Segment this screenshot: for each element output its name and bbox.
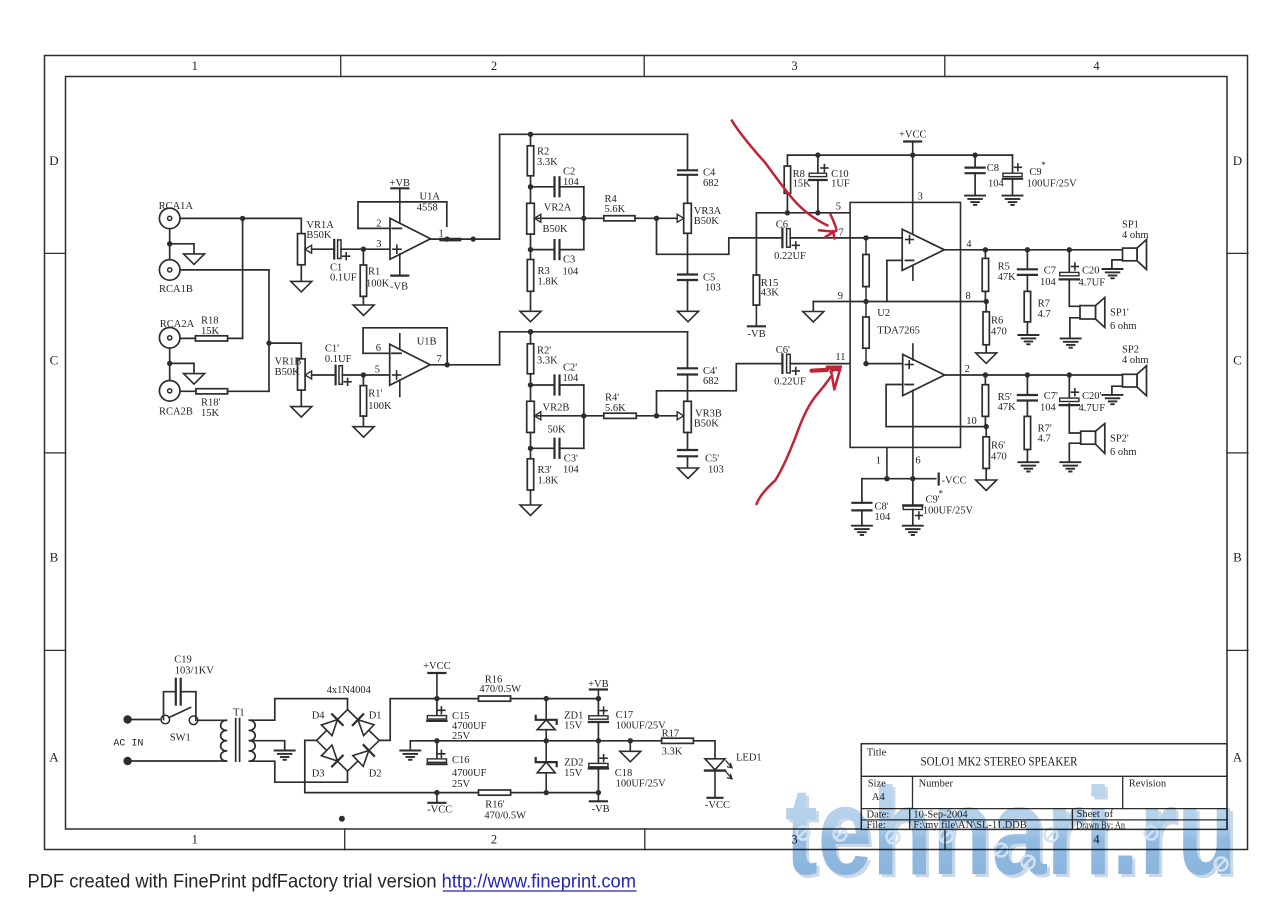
wire U1B out up to rail B bbox=[500, 332, 688, 365]
svg-text:9: 9 bbox=[838, 291, 843, 302]
resistor R18' bbox=[196, 389, 228, 394]
ground C9 bbox=[1003, 195, 1023, 197]
LED LED1 bbox=[705, 759, 725, 770]
svg-text:6 ohm: 6 ohm bbox=[1110, 447, 1137, 458]
node rail C8 bbox=[972, 152, 977, 157]
wire secondary bottom bbox=[249, 761, 347, 782]
ground C5' bbox=[678, 468, 699, 479]
svg-text:*: * bbox=[939, 489, 944, 499]
svg-text:D2: D2 bbox=[369, 768, 382, 779]
wire VR3B to C5' bbox=[687, 433, 689, 451]
power stub U1B bottom bbox=[399, 380, 401, 397]
speaker SP2' bbox=[1096, 424, 1105, 454]
svg-text:100UF/25V: 100UF/25V bbox=[616, 778, 667, 789]
svg-text:3.3K: 3.3K bbox=[662, 747, 683, 758]
node +vcc c15 bbox=[434, 696, 439, 701]
power amp 2 top stub bbox=[912, 344, 914, 360]
svg-text:4: 4 bbox=[966, 239, 972, 250]
resistor R5 bbox=[984, 250, 986, 259]
svg-text:25V: 25V bbox=[452, 779, 471, 790]
svg-text:C: C bbox=[50, 353, 59, 368]
wire R18 to node bbox=[228, 218, 243, 338]
svg-text:T1: T1 bbox=[233, 708, 245, 719]
wire U1A output bbox=[431, 238, 500, 240]
switch SW1 bbox=[161, 715, 170, 724]
svg-text:2: 2 bbox=[491, 59, 497, 73]
wire SW1 to T1 bbox=[198, 719, 227, 721]
svg-text:15K: 15K bbox=[201, 408, 220, 419]
speaker SP1' bbox=[1096, 298, 1105, 328]
ground R3 bbox=[520, 311, 541, 322]
svg-text:-VB: -VB bbox=[390, 282, 408, 293]
svg-text:R6': R6' bbox=[991, 441, 1005, 452]
svg-text:tehnari.ru: tehnari.ru bbox=[785, 763, 1237, 901]
svg-text:C7': C7' bbox=[1044, 391, 1058, 402]
ground R7' bbox=[1018, 461, 1038, 463]
wire bridge diamond bbox=[317, 710, 380, 772]
node pin8 R6 bbox=[984, 299, 989, 304]
svg-text:1UF: 1UF bbox=[831, 179, 850, 190]
svg-text:SP1: SP1 bbox=[1122, 220, 1139, 231]
svg-text:100UF/25V: 100UF/25V bbox=[1027, 178, 1078, 189]
node rail C10 bbox=[815, 152, 820, 157]
svg-text:100K: 100K bbox=[368, 401, 392, 412]
node rail pin3 bbox=[910, 152, 915, 157]
ground mid rail bbox=[409, 741, 411, 751]
svg-text:6: 6 bbox=[376, 343, 381, 354]
svg-text:R18: R18 bbox=[201, 316, 219, 327]
node out2 C7' bbox=[1025, 372, 1030, 377]
wire VR2A wiper bbox=[537, 217, 604, 219]
capacitor C20' bbox=[1068, 375, 1070, 398]
node RCA2 shield bbox=[167, 361, 172, 366]
amp1 feedback to pin8 bbox=[887, 260, 902, 301]
power -VB psu bbox=[597, 793, 599, 802]
wire C5' to ground bbox=[687, 456, 689, 468]
svg-text:C9: C9 bbox=[1029, 167, 1041, 178]
node out2 C20' bbox=[1067, 372, 1072, 377]
svg-text:104: 104 bbox=[563, 266, 580, 277]
wire R3' to ground bbox=[530, 490, 532, 505]
node U1A out a bbox=[444, 236, 449, 241]
svg-text:100K: 100K bbox=[366, 279, 390, 290]
connector RCA1A bbox=[159, 208, 180, 229]
svg-text:0.1UF: 0.1UF bbox=[325, 354, 352, 365]
power -VB R15 bbox=[755, 305, 757, 326]
wire R18' to node bbox=[228, 390, 269, 392]
ground SP1' bbox=[1061, 337, 1081, 339]
wire B signal to C6' bbox=[657, 364, 783, 416]
node R4' out bbox=[654, 413, 659, 418]
svg-text:4.7UF: 4.7UF bbox=[1079, 278, 1106, 289]
wire RCA2A to R18 bbox=[180, 337, 195, 339]
node ZD mid bbox=[544, 738, 549, 743]
svg-text:SW1: SW1 bbox=[170, 732, 191, 743]
power stub U1B top bbox=[399, 334, 401, 350]
wire R15 drop bbox=[755, 213, 757, 275]
resistor R3 bbox=[527, 260, 533, 292]
wire R3 to ground bbox=[530, 291, 532, 311]
node rail A R2 bbox=[528, 132, 533, 137]
wire pin9 line bbox=[813, 301, 960, 303]
svg-text:RCA2A: RCA2A bbox=[160, 319, 195, 330]
ground RCA2 shield bbox=[184, 374, 205, 385]
node out4 C7 bbox=[1025, 247, 1030, 252]
resistor R1 bbox=[360, 265, 366, 296]
wire RCA1 shield to ground bbox=[170, 244, 194, 254]
svg-text:C19: C19 bbox=[174, 654, 192, 665]
capacitor C6' bbox=[781, 354, 783, 373]
wire R16 to +VB bbox=[511, 698, 599, 700]
node +VB bbox=[596, 696, 601, 701]
ground SP2 bbox=[1103, 394, 1123, 396]
svg-text:4: 4 bbox=[1093, 59, 1100, 73]
wire bridge minus out bbox=[305, 740, 437, 792]
svg-text:1: 1 bbox=[192, 833, 198, 847]
ground center tap bbox=[275, 750, 295, 752]
node RCA1 shield bbox=[167, 241, 172, 246]
svg-text:-VCC: -VCC bbox=[942, 476, 967, 487]
svg-text:R3: R3 bbox=[538, 266, 550, 277]
capacitor C19 bbox=[175, 679, 177, 705]
wire U1A out up to rail A bbox=[500, 134, 688, 239]
svg-text:+VCC: +VCC bbox=[899, 130, 927, 141]
svg-text:47K: 47K bbox=[998, 402, 1017, 413]
wire pin5 rail bbox=[756, 212, 850, 214]
wire C6' to pin11 bbox=[790, 363, 866, 365]
potentiometer VR1A bbox=[298, 234, 306, 265]
ground C8 bbox=[965, 195, 985, 197]
svg-text:R5: R5 bbox=[998, 261, 1010, 272]
wire bridge plus out bbox=[379, 699, 437, 741]
node gnd mid bbox=[628, 738, 633, 743]
wire VR1B wiper to C1' bbox=[312, 374, 336, 376]
svg-text:2: 2 bbox=[491, 833, 497, 847]
wire RCA1A to VR1A bbox=[180, 218, 301, 233]
svg-text:-VCC: -VCC bbox=[427, 805, 452, 816]
node U1A out b bbox=[471, 236, 476, 241]
svg-text:104: 104 bbox=[563, 177, 580, 188]
svg-text:B50K: B50K bbox=[275, 367, 301, 378]
svg-text:C6: C6 bbox=[776, 219, 788, 230]
svg-text:TDA7265: TDA7265 bbox=[877, 325, 920, 336]
wire node to VR1B bbox=[269, 343, 301, 359]
resistor R4' bbox=[604, 413, 637, 418]
node pin10 R6' bbox=[984, 424, 989, 429]
wire AC top to SW1 bbox=[132, 719, 160, 721]
svg-text:104: 104 bbox=[563, 373, 580, 384]
node C10 bottom bbox=[815, 210, 820, 215]
svg-text:15V: 15V bbox=[564, 768, 583, 779]
svg-text:B50K: B50K bbox=[694, 419, 720, 430]
svg-text:3: 3 bbox=[918, 192, 923, 203]
potentiometer VR1B bbox=[298, 359, 306, 390]
resistor R16' bbox=[479, 790, 511, 795]
wire R1 to ground bbox=[362, 296, 364, 305]
svg-text:100UF/25V: 100UF/25V bbox=[923, 506, 974, 517]
svg-text:0.1UF: 0.1UF bbox=[330, 272, 357, 283]
capacitor C16 bbox=[436, 741, 438, 759]
node C2' left bbox=[528, 382, 533, 387]
svg-text:SP2': SP2' bbox=[1110, 434, 1129, 445]
resistor R3' bbox=[527, 459, 533, 490]
svg-text:104: 104 bbox=[875, 512, 892, 523]
amp2 bottom stub pin6 bbox=[912, 390, 914, 478]
wire pin10 ext bbox=[961, 426, 987, 428]
svg-text:103/1KV: 103/1KV bbox=[175, 665, 215, 676]
svg-text:15K: 15K bbox=[201, 326, 220, 337]
op-amp U1B bbox=[390, 344, 431, 385]
svg-text:D4: D4 bbox=[312, 711, 326, 722]
svg-text:50K: 50K bbox=[548, 424, 567, 435]
ground R1 bbox=[353, 305, 374, 316]
svg-text:R17: R17 bbox=[662, 728, 680, 739]
svg-text:1: 1 bbox=[876, 455, 881, 466]
resistor R2 bbox=[530, 134, 532, 146]
svg-text:10: 10 bbox=[966, 416, 977, 427]
capacitor C8 bbox=[974, 155, 976, 168]
power +VB U1A bbox=[391, 187, 408, 189]
wire C1' to pin5 bbox=[342, 374, 389, 376]
resistor R7 bbox=[1026, 275, 1028, 292]
svg-text:104: 104 bbox=[1040, 277, 1057, 288]
wire U1B feedback loop bbox=[363, 328, 447, 365]
wire pin1 bbox=[886, 447, 888, 478]
svg-text:R2: R2 bbox=[537, 146, 549, 157]
svg-text:D: D bbox=[49, 153, 58, 168]
power +VCC bbox=[904, 140, 921, 142]
wire -VCC node bbox=[862, 478, 936, 480]
svg-text:2: 2 bbox=[376, 218, 381, 229]
svg-text:7: 7 bbox=[839, 228, 844, 239]
svg-text:U1A: U1A bbox=[420, 192, 441, 203]
diode D3 bbox=[321, 745, 337, 761]
wire U1A feedback loop bbox=[358, 202, 447, 229]
svg-text:+VB: +VB bbox=[588, 679, 609, 690]
terminal AC bottom bbox=[123, 757, 131, 765]
wire U1B output bbox=[430, 364, 499, 366]
power -VB U1A bbox=[399, 254, 401, 276]
wire top rail R16 bbox=[437, 698, 479, 700]
svg-text:5: 5 bbox=[375, 365, 380, 376]
power amp 2 triangle bbox=[903, 354, 945, 395]
svg-text:PDF created with FinePrint pdf: PDF created with FinePrint pdfFactory tr… bbox=[28, 871, 637, 893]
capacitor C4 bbox=[687, 134, 689, 170]
svg-text:-VB: -VB bbox=[748, 329, 766, 340]
svg-text:682: 682 bbox=[703, 178, 719, 189]
node pin1 -vcc bbox=[884, 476, 889, 481]
svg-text:U2: U2 bbox=[877, 308, 890, 319]
power +VCC psu bbox=[428, 672, 445, 674]
ground C5 bbox=[678, 311, 699, 322]
svg-text:C2: C2 bbox=[563, 166, 575, 177]
node out4 C20 bbox=[1067, 247, 1072, 252]
svg-text:6 ohm: 6 ohm bbox=[1110, 321, 1137, 332]
wire +VCC rail top bbox=[786, 155, 788, 166]
wire RCA1B to VR1B node bbox=[180, 270, 269, 391]
ground R3' bbox=[520, 505, 541, 516]
connector RCA1B bbox=[159, 260, 180, 281]
node VR2B wiper bbox=[581, 413, 586, 418]
svg-text:C3: C3 bbox=[563, 255, 575, 266]
capacitor C7 bbox=[1026, 250, 1028, 269]
svg-text:*: * bbox=[1041, 160, 1046, 170]
capacitor C1' bbox=[335, 366, 337, 385]
capacitor C7' bbox=[1026, 375, 1028, 395]
svg-text:A: A bbox=[49, 750, 59, 765]
connector RCA2A bbox=[159, 328, 180, 349]
resistor R17 bbox=[662, 738, 694, 743]
node ZD1 top bbox=[544, 696, 549, 701]
wire C6 to pin7 bbox=[790, 237, 866, 239]
wire to R1' bbox=[362, 375, 364, 386]
red annotation arrows bbox=[732, 121, 841, 505]
svg-text:B50K: B50K bbox=[306, 230, 332, 241]
resistor R6 bbox=[985, 302, 987, 312]
ground C8' bbox=[852, 525, 872, 527]
svg-text:C20': C20' bbox=[1082, 391, 1102, 402]
potentiometer VR2B bbox=[527, 401, 535, 432]
svg-text:682: 682 bbox=[703, 376, 719, 387]
wire VR2B wiper bbox=[537, 415, 604, 417]
svg-text:1.8K: 1.8K bbox=[538, 475, 559, 486]
resistor R16 bbox=[479, 696, 511, 701]
ground R7 bbox=[1018, 334, 1038, 336]
power +VB psu bbox=[597, 690, 599, 699]
terminal AC top bbox=[123, 715, 131, 723]
power -VCC led bbox=[708, 797, 723, 799]
svg-text:C: C bbox=[1233, 353, 1242, 368]
svg-text:B: B bbox=[1233, 550, 1242, 565]
svg-text:104: 104 bbox=[1040, 402, 1057, 413]
svg-text:R6: R6 bbox=[991, 316, 1003, 327]
svg-text:U1B: U1B bbox=[417, 337, 437, 348]
wire LED1 to -VCC bbox=[714, 771, 716, 798]
svg-text:C3': C3' bbox=[564, 453, 578, 464]
svg-text:5.6K: 5.6K bbox=[605, 204, 626, 215]
svg-text:C6': C6' bbox=[776, 345, 790, 356]
svg-text:C8: C8 bbox=[987, 163, 999, 174]
svg-text:7: 7 bbox=[437, 354, 442, 365]
svg-text:5: 5 bbox=[836, 202, 841, 213]
svg-text:SP2: SP2 bbox=[1122, 345, 1139, 356]
wire pin3 bbox=[912, 155, 914, 235]
svg-text:B50K: B50K bbox=[543, 224, 569, 235]
ground C9' bbox=[903, 525, 923, 527]
zener ZD2 bbox=[545, 741, 547, 762]
svg-text:4.7: 4.7 bbox=[1038, 309, 1051, 320]
svg-text:11: 11 bbox=[835, 352, 845, 363]
wire SP2 to ground bbox=[1112, 386, 1123, 395]
ground SP1 bbox=[1103, 268, 1123, 270]
capacitor C17 bbox=[597, 699, 599, 716]
node mid c15c16 bbox=[434, 738, 439, 743]
wire pin2 output bbox=[945, 374, 1123, 376]
svg-text:RCA1A: RCA1A bbox=[159, 201, 194, 212]
node pin7 bbox=[863, 235, 868, 240]
wire R2 to VR2A bbox=[530, 176, 532, 204]
resistor R8 bbox=[784, 166, 790, 193]
node VR2A wiper bbox=[581, 216, 586, 221]
wire to R1 bbox=[362, 249, 364, 265]
wire C17 to mid bbox=[597, 722, 599, 741]
node C17 mid bbox=[596, 738, 601, 743]
diode D4 bbox=[321, 720, 337, 736]
svg-text:4558: 4558 bbox=[417, 202, 438, 213]
resistor R4 bbox=[604, 216, 635, 221]
svg-text:C5': C5' bbox=[705, 453, 719, 464]
node C2 left bbox=[528, 184, 533, 189]
svg-text:6: 6 bbox=[915, 455, 920, 466]
snubber C19 loop bbox=[164, 692, 175, 720]
node C18 bottom bbox=[596, 790, 601, 795]
node ZD2 bottom bbox=[544, 790, 549, 795]
svg-text:+VB: +VB bbox=[390, 178, 411, 189]
svg-text:C20: C20 bbox=[1082, 265, 1100, 276]
capacitor C2' bbox=[531, 384, 555, 386]
wire RCA2A-RCA2B shield bbox=[169, 348, 171, 380]
node -vcc c16 bbox=[434, 790, 439, 795]
wire VR3A to C5 bbox=[687, 233, 689, 274]
wire SP1 to ground bbox=[1112, 260, 1123, 269]
capacitor C8' bbox=[861, 479, 863, 503]
wire C20 to SP1' bbox=[1069, 279, 1080, 306]
wire center tap bbox=[249, 741, 284, 751]
svg-text:103: 103 bbox=[708, 465, 724, 476]
potentiometer VR3B bbox=[684, 401, 692, 432]
capacitor C9' bbox=[912, 479, 914, 506]
svg-text:104: 104 bbox=[563, 464, 580, 475]
svg-text:104: 104 bbox=[988, 178, 1005, 189]
svg-text:RCA2B: RCA2B bbox=[159, 407, 193, 418]
wire pin8 ext bbox=[961, 301, 987, 303]
power amp 1 triangle bbox=[902, 229, 944, 270]
svg-text:D1: D1 bbox=[369, 711, 382, 722]
resistor R18 bbox=[195, 336, 227, 341]
amp2 feedback to pin10 bbox=[886, 385, 960, 427]
capacitor C3' bbox=[531, 447, 555, 449]
zener ZD1 bbox=[545, 699, 547, 720]
ground R1' bbox=[353, 427, 374, 438]
node C3 left bbox=[528, 247, 533, 252]
svg-text:43K: 43K bbox=[761, 287, 780, 298]
svg-text:4700UF: 4700UF bbox=[452, 768, 487, 779]
wire U1B pin6 bbox=[363, 352, 390, 354]
svg-text:VR2A: VR2A bbox=[544, 203, 572, 214]
svg-text:470/0.5W: 470/0.5W bbox=[479, 684, 521, 695]
svg-text:2: 2 bbox=[965, 364, 970, 375]
svg-text:3.3K: 3.3K bbox=[537, 356, 558, 367]
svg-text:RCA1B: RCA1B bbox=[159, 284, 193, 295]
svg-text:1: 1 bbox=[439, 229, 444, 240]
op-amp U1A bbox=[390, 218, 431, 259]
capacitor C20 bbox=[1068, 250, 1070, 273]
ground R6 bbox=[976, 353, 997, 364]
svg-text:B: B bbox=[50, 550, 59, 565]
svg-text:100UF/25V: 100UF/25V bbox=[616, 721, 667, 732]
capacitor C5' bbox=[678, 449, 697, 451]
wire C18 to -VB rail bbox=[597, 769, 599, 793]
capacitor C3 bbox=[531, 249, 555, 251]
diode D2 bbox=[353, 751, 369, 767]
capacitor C4' bbox=[687, 332, 689, 369]
svg-text:-VB: -VB bbox=[592, 804, 610, 815]
ground mid bbox=[629, 741, 631, 752]
wire mid rail bbox=[437, 740, 662, 742]
svg-text:4 ohm: 4 ohm bbox=[1122, 355, 1149, 366]
ground VR1B bbox=[291, 407, 312, 418]
svg-text:Title: Title bbox=[867, 748, 887, 759]
